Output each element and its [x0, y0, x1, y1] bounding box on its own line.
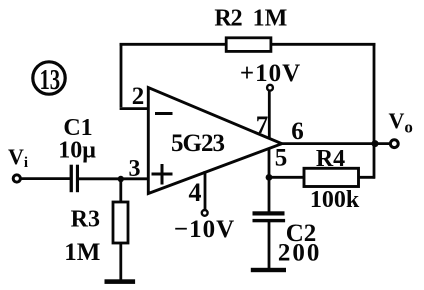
op-amp U1 5G23	[148, 88, 281, 194]
inverting input marker	[155, 112, 173, 115]
svg-text:7: 7	[256, 112, 269, 139]
wire feedback top horizontal left	[120, 43, 227, 46]
svg-text:5: 5	[275, 145, 288, 172]
svg-text:2: 2	[132, 83, 145, 110]
ground of R3	[105, 279, 136, 284]
resistor R3	[113, 202, 128, 243]
wire feedback right vertical	[373, 43, 376, 179]
wire feedback top horizontal right	[271, 43, 376, 46]
wire C2 to ground	[268, 222, 271, 270]
svg-text:5G23: 5G23	[171, 130, 224, 157]
+10V terminal	[267, 85, 273, 91]
output junction dot	[372, 140, 379, 147]
resistor R4	[304, 168, 359, 186]
-10V terminal	[202, 210, 208, 216]
wire R3 to ground	[119, 243, 122, 281]
wire pin 5 to R4	[269, 176, 305, 179]
svg-text:100k: 100k	[310, 187, 360, 213]
svg-text:+10V: +10V	[240, 60, 301, 87]
wire node A down to R3	[119, 179, 122, 203]
figure number badge 13	[33, 62, 65, 96]
ground of C2	[251, 268, 286, 272]
wire feedback left vertical	[120, 43, 123, 107]
wire pin 2 horizontal	[120, 107, 149, 110]
pin 5 junction dot	[266, 174, 273, 181]
svg-text:Vo: Vo	[389, 108, 413, 137]
svg-text:1M: 1M	[253, 6, 288, 32]
svg-text:R3: R3	[71, 207, 100, 233]
wire R4 to output node	[358, 176, 376, 179]
svg-text:6: 6	[291, 118, 304, 145]
svg-text:1M: 1M	[64, 239, 100, 266]
wire +10V to pin 7	[268, 91, 271, 139]
svg-text:200: 200	[278, 240, 322, 267]
capacitor C1	[70, 165, 79, 193]
svg-text:13: 13	[39, 65, 60, 96]
capacitor C2	[253, 211, 286, 222]
output terminal Vo	[390, 140, 398, 148]
wire pin 4 to -10V	[204, 171, 207, 210]
svg-text:10μ: 10μ	[58, 138, 96, 164]
wire C1 to node A to pin 3	[79, 177, 149, 180]
resistor R2	[226, 38, 271, 52]
svg-text:4: 4	[189, 178, 202, 207]
node A junction dot	[118, 176, 124, 182]
svg-text:Vi: Vi	[8, 144, 28, 171]
svg-text:−10V: −10V	[174, 216, 235, 243]
wire Vi to C1	[21, 177, 70, 180]
svg-text:3: 3	[129, 156, 141, 182]
input terminal Vi	[13, 175, 20, 182]
wire output pin 6	[281, 142, 391, 145]
svg-text:R2: R2	[214, 6, 241, 32]
wire pin 5 down	[268, 149, 271, 213]
non-inverting input marker	[152, 164, 173, 185]
